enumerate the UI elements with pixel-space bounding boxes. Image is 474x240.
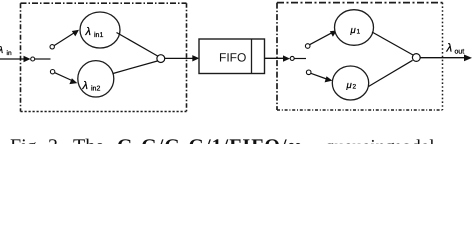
svg-text:Fig.: Fig. bbox=[10, 136, 42, 145]
svg-text:μ: μ bbox=[350, 25, 357, 36]
svg-text:model: model bbox=[387, 137, 435, 145]
svg-text:queueing: queueing bbox=[325, 137, 395, 145]
server circle mu2 bbox=[332, 66, 368, 100]
svg-text:λ: λ bbox=[0, 45, 4, 56]
node: output switch pole circle bbox=[290, 56, 294, 60]
svg-text:μ: μ bbox=[346, 80, 353, 91]
dashed box: arrival process (left) bbox=[21, 3, 187, 111]
generator circle lambda_in1 bbox=[80, 12, 120, 48]
FIFO queue box bbox=[199, 39, 265, 74]
node: switch throw contact to lambda_in2 bbox=[50, 70, 54, 74]
svg-text:1: 1 bbox=[357, 29, 361, 36]
wire: output line with arrow lambda_out bbox=[420, 57, 465, 59]
label lambda_out bbox=[446, 43, 465, 56]
node: throw contact to mu2 bbox=[306, 70, 311, 75]
wire: lambda_in2 to merge node bbox=[113, 61, 157, 74]
wire: merge node to FIFO with arrow bbox=[165, 57, 194, 59]
arrow into input switch pole bbox=[24, 56, 31, 62]
svg-text:FIFO: FIFO bbox=[219, 51, 246, 65]
server circle mu1 bbox=[335, 10, 374, 46]
wire: throw to mu2 with arrow bbox=[311, 73, 328, 79]
wire: mu2 to right merge node bbox=[369, 60, 413, 86]
wire: switch wiper bbox=[35, 58, 51, 60]
svg-text:λ: λ bbox=[85, 26, 91, 38]
node: throw contact to mu1 bbox=[305, 44, 310, 49]
wire: mu1 to right merge node bbox=[372, 32, 413, 55]
svg-text:in: in bbox=[7, 50, 12, 57]
node: right merge circle bbox=[412, 54, 420, 62]
svg-text:3.: 3. bbox=[48, 136, 63, 145]
wire: FIFO to right switch with arrow bbox=[265, 57, 285, 59]
node: input switch pole circle bbox=[31, 57, 35, 61]
svg-text:λ: λ bbox=[446, 43, 453, 55]
dashed box: service process (right) bbox=[277, 3, 443, 110]
FIFO server divider bbox=[251, 39, 253, 74]
svg-text:λ: λ bbox=[82, 80, 88, 92]
wire: throw to mu1 with arrow bbox=[310, 33, 332, 45]
svg-text:G-G/G-G/1/FIFO/∞: G-G/G-G/1/FIFO/∞ bbox=[117, 136, 303, 145]
caption: Fig. 3. The G-G/G-G/1/FIFO/inf queueing model (cut off at bottom) bbox=[10, 136, 435, 158]
wire: right switch wiper bbox=[294, 58, 306, 60]
node: left merge circle bbox=[157, 55, 165, 63]
svg-text:in2: in2 bbox=[91, 85, 100, 93]
label lambda_in bbox=[0, 45, 12, 57]
wire: lambda_in1 to merge node bbox=[117, 33, 158, 57]
node: switch throw contact to lambda_in1 bbox=[50, 45, 54, 49]
svg-text:out: out bbox=[455, 49, 465, 56]
wire: throw to lambda_in2 with arrow bbox=[55, 73, 73, 81]
svg-text:The: The bbox=[73, 136, 104, 145]
generator circle lambda_in2 bbox=[78, 61, 114, 97]
wire: throw to lambda_in1 with arrow bbox=[54, 33, 74, 46]
svg-text:in1: in1 bbox=[94, 31, 103, 39]
svg-text:2: 2 bbox=[353, 84, 357, 91]
wire: input line bbox=[0, 58, 26, 60]
